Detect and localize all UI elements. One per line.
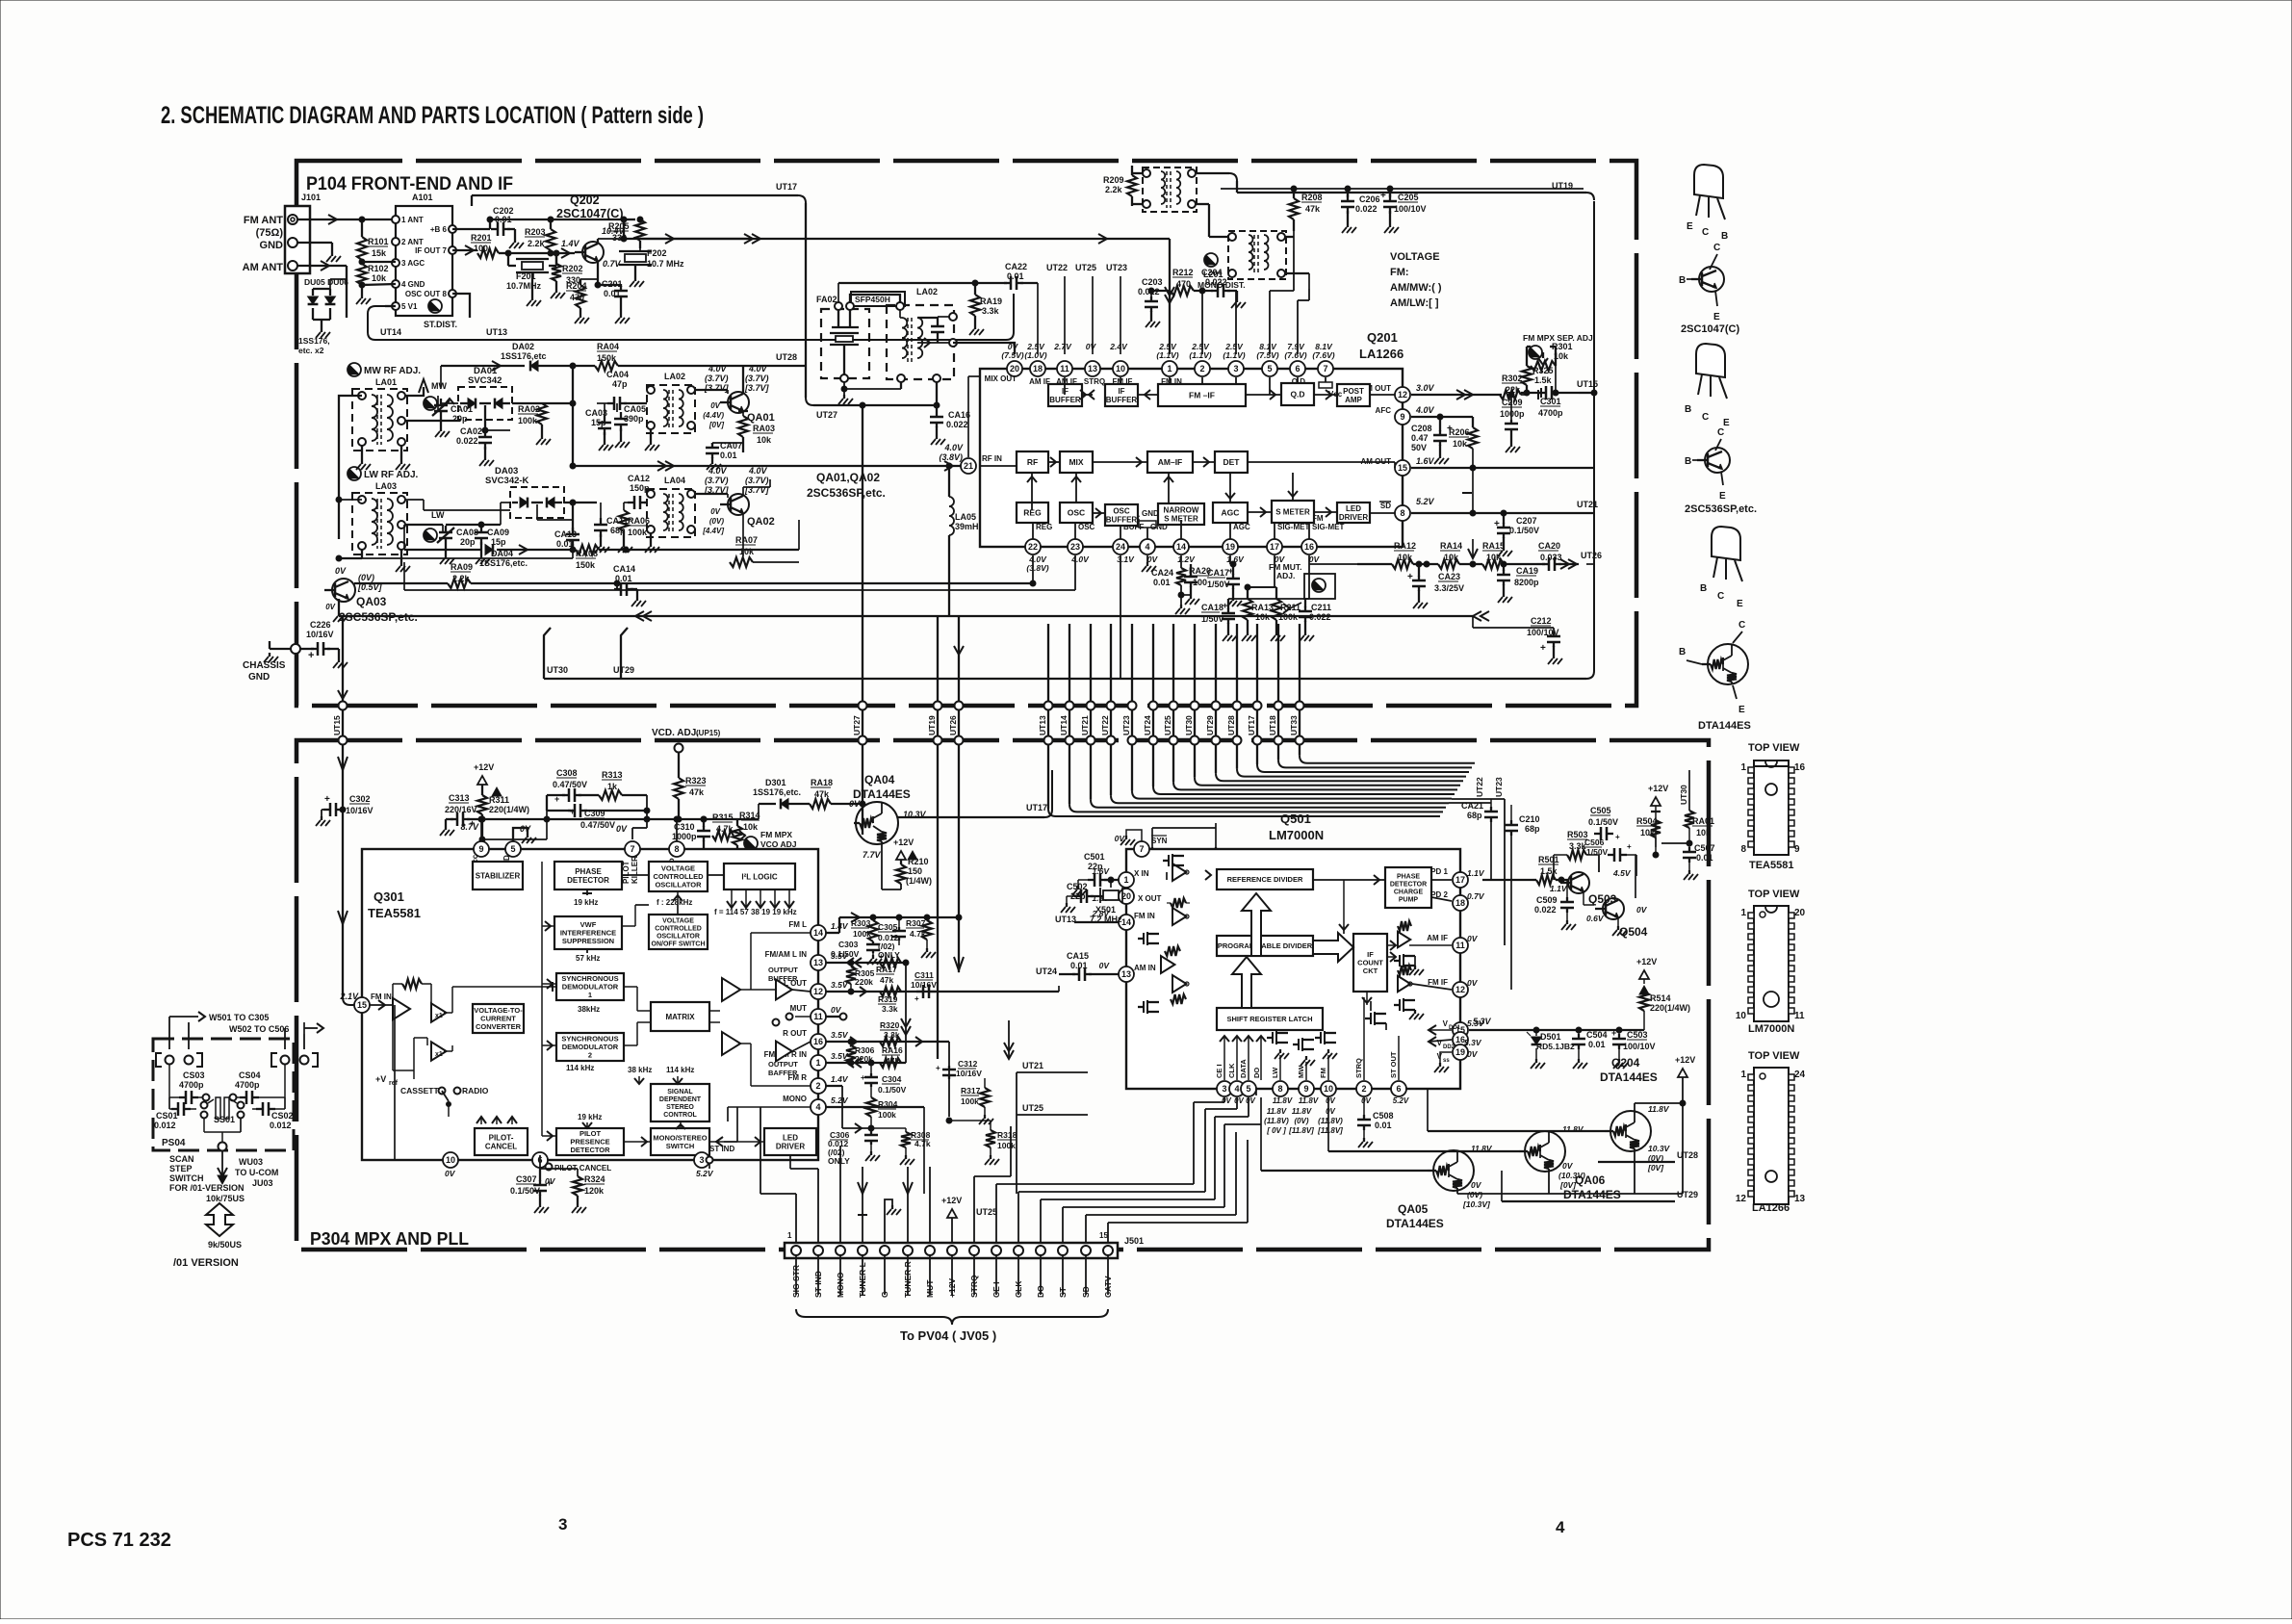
svg-text:24: 24 <box>1116 542 1125 552</box>
svg-text:3.3/25V: 3.3/25V <box>1434 583 1464 593</box>
wire top right rail <box>1221 188 1584 190</box>
wire PD1 row <box>1469 879 1532 881</box>
wire 5.2V arrow <box>1462 492 1472 494</box>
svg-text:RA07: RA07 <box>735 535 758 545</box>
wire LA01 left loop <box>339 396 362 539</box>
svg-text:C505: C505 <box>1590 806 1611 815</box>
Q201 internal vert FM <box>1201 377 1203 384</box>
J501 riser CATV <box>1107 1223 1109 1243</box>
svg-text:TUNER L: TUNER L <box>858 1262 867 1298</box>
svg-text:1: 1 <box>1167 364 1172 374</box>
svg-text:10/16V: 10/16V <box>346 806 373 815</box>
svg-text:8: 8 <box>1740 844 1746 855</box>
wire QA04 collector right <box>898 816 1044 818</box>
wire +B rail top <box>452 228 490 230</box>
svg-text:C208: C208 <box>1411 424 1432 433</box>
svg-text:UT18: UT18 <box>1268 715 1277 735</box>
svg-text:(3.8V): (3.8V) <box>939 452 963 462</box>
svg-text:STEP: STEP <box>169 1164 193 1173</box>
svg-text:F202: F202 <box>647 248 667 258</box>
Q301 pin 16 <box>811 1034 826 1049</box>
svg-text:C307: C307 <box>516 1174 537 1184</box>
block RF <box>1017 451 1048 473</box>
Q301 pin 5 <box>505 841 521 857</box>
svg-text:UT22: UT22 <box>1046 263 1068 272</box>
svg-text:ST OUT: ST OUT <box>1389 1051 1398 1078</box>
wire pin7 from R313 <box>646 819 648 828</box>
Q201 pin 2 <box>1195 361 1210 376</box>
svg-text:38 kHz: 38 kHz <box>628 1066 652 1074</box>
svg-text:VOLTAGE: VOLTAGE <box>1390 251 1440 263</box>
svg-text:10k: 10k <box>743 822 759 832</box>
block SYNC DEMOD 1 <box>556 973 624 1000</box>
svg-text:7: 7 <box>630 844 634 854</box>
svg-text:UT14: UT14 <box>1059 715 1069 735</box>
Q201 pin 6 <box>1290 361 1305 376</box>
Q301 pin 4 <box>811 1099 826 1115</box>
svg-text:22p: 22p <box>1088 862 1103 871</box>
wire pin24 drop <box>1120 555 1121 679</box>
svg-text:2SC1047(C): 2SC1047(C) <box>556 207 623 220</box>
svg-text:23: 23 <box>1070 542 1080 552</box>
J501 pin 6 TUNER R <box>903 1246 913 1255</box>
svg-text:1.5k: 1.5k <box>1540 866 1558 876</box>
svg-text:5.2V: 5.2V <box>1393 1096 1409 1105</box>
varactor DA03b <box>547 498 554 508</box>
Q301 pin 13 <box>811 955 826 970</box>
svg-text:C: C <box>1717 427 1724 438</box>
package 2SC536 TO92 <box>1696 344 1725 377</box>
svg-text:(0V): (0V) <box>1467 1190 1482 1199</box>
svg-text:1SS176,etc.: 1SS176,etc. <box>753 787 801 797</box>
svg-text:11.8V: 11.8V <box>1299 1096 1319 1105</box>
svg-text:MONO: MONO <box>836 1272 845 1298</box>
warning triangle R514 <box>1639 986 1649 994</box>
svg-text:SD: SD <box>1380 502 1391 510</box>
bus wire UT15 <box>342 616 344 997</box>
LA03 gnd leads <box>400 550 402 562</box>
resistor R102 10k <box>361 260 363 264</box>
block LED DRIVER <box>1337 503 1370 523</box>
svg-text:W501 TO C305: W501 TO C305 <box>209 1013 269 1022</box>
svg-text:3.1V: 3.1V <box>1117 554 1135 564</box>
A101 pin2 ANT <box>392 238 399 245</box>
bus wire UT18 <box>1277 624 1279 760</box>
svg-text:1.2V: 1.2V <box>1177 554 1196 564</box>
svg-text:CA24: CA24 <box>1151 568 1173 578</box>
wire F202 node to FM line <box>640 238 1170 240</box>
svg-text:100k: 100k <box>518 416 538 425</box>
svg-text:2: 2 <box>1361 1084 1366 1094</box>
svg-text:5: 5 <box>1246 1084 1250 1094</box>
svg-text:C206: C206 <box>1359 194 1380 204</box>
svg-text:100k: 100k <box>961 1096 979 1106</box>
svg-text:BUFFER: BUFFER <box>768 974 798 983</box>
wire Q202 collector to rail <box>597 239 599 244</box>
Q501 pin 18 PD2 <box>1453 895 1468 911</box>
Q301 wire vwf <box>622 925 635 927</box>
P504 switch contacts L <box>156 1053 162 1067</box>
svg-text:0V: 0V <box>616 824 628 834</box>
wire UT29 out <box>1502 1200 1675 1202</box>
wire FM/AM L IN row <box>826 962 906 964</box>
Q501 pin 3 <box>1217 1081 1232 1096</box>
svg-text:DTA144ES: DTA144ES <box>1698 720 1751 732</box>
svg-text:UT25: UT25 <box>1075 263 1096 272</box>
svg-text:0.7V: 0.7V <box>603 259 622 269</box>
Q501 big arrow up <box>1242 893 1271 956</box>
svg-text:KILLER: KILLER <box>631 856 639 884</box>
Q501 fets am <box>1143 933 1145 944</box>
svg-text:G: G <box>880 1291 889 1298</box>
LA01 gnd leads <box>361 446 363 460</box>
svg-text:8: 8 <box>1400 508 1404 518</box>
svg-text:LA01: LA01 <box>375 377 397 387</box>
wire R ladder to pin4 <box>362 284 396 285</box>
svg-text:UT17: UT17 <box>1247 715 1256 735</box>
svg-text:5.3V: 5.3V <box>1473 1017 1492 1026</box>
svg-text:4: 4 <box>1145 542 1149 552</box>
svg-text:11: 11 <box>1794 1011 1805 1021</box>
Q301 pin 12 <box>811 984 826 999</box>
svg-text:R323: R323 <box>685 776 707 786</box>
svg-text:Q504: Q504 <box>1619 925 1648 939</box>
svg-text:PROGRAMMABLE DIVIDER: PROGRAMMABLE DIVIDER <box>1218 941 1313 950</box>
wire RA09 line <box>354 582 448 584</box>
svg-text:CA05: CA05 <box>624 404 646 414</box>
svg-text:OSCILLATOR: OSCILLATOR <box>657 933 700 940</box>
svg-text:4.0V: 4.0V <box>1415 405 1435 415</box>
J501 pin 8 +12V <box>947 1246 957 1255</box>
block VCO <box>649 862 708 891</box>
svg-text:15: 15 <box>1398 463 1407 473</box>
x1 buffer 2 <box>431 1042 447 1061</box>
Q501 pin 10 <box>1321 1081 1336 1096</box>
svg-text:FM MPX: FM MPX <box>760 830 792 839</box>
svg-text:15: 15 <box>357 1000 367 1010</box>
svg-text:OSC: OSC <box>1068 507 1085 517</box>
Q301 pin 9 <box>474 841 489 857</box>
svg-text:Q301: Q301 <box>373 889 404 904</box>
svg-text:(1.0V): (1.0V) <box>1024 350 1046 360</box>
svg-text:R102: R102 <box>368 264 389 273</box>
svg-text:JU03: JU03 <box>252 1178 273 1188</box>
double arrow version <box>206 1203 233 1236</box>
transformer T201 dashed box <box>1143 168 1197 212</box>
svg-text:220(1/4W): 220(1/4W) <box>1650 1003 1690 1013</box>
svg-text:57 kHz: 57 kHz <box>576 954 600 963</box>
wire R ladder to pin3 <box>362 261 396 263</box>
svg-text:X501: X501 <box>1095 905 1116 915</box>
block VWF <box>554 916 622 949</box>
svg-text:IF OUT 7: IF OUT 7 <box>415 246 447 255</box>
svg-text:4: 4 <box>1556 1518 1565 1536</box>
svg-text:UT14: UT14 <box>380 327 401 337</box>
wire mut row <box>1248 586 1276 588</box>
P304 board dashed border <box>296 740 1709 1250</box>
svg-text:Q202: Q202 <box>570 193 600 207</box>
bus wire UT22 <box>1110 624 1112 795</box>
input amp triangle <box>393 998 410 1020</box>
svg-text:UT30: UT30 <box>547 665 568 675</box>
wire Q204 emitter up <box>1634 1151 1635 1194</box>
svg-text:Q501: Q501 <box>1280 812 1311 826</box>
transformer LA02if dashed box <box>647 385 695 433</box>
wire mid vertical node <box>572 366 574 403</box>
diode DU05 <box>312 289 314 296</box>
svg-text:0V: 0V <box>1099 961 1111 970</box>
transistor QA05 <box>1433 1150 1474 1191</box>
svg-text:LA1266: LA1266 <box>1752 1202 1790 1214</box>
svg-text:LA05: LA05 <box>955 512 976 522</box>
svg-text:W502 TO C506: W502 TO C506 <box>229 1024 289 1034</box>
svg-text:MUT: MUT <box>790 1004 807 1013</box>
Q201 bottom pin stubs <box>1032 523 1034 539</box>
svg-text:TEA5581: TEA5581 <box>368 906 421 920</box>
svg-text:C311: C311 <box>914 970 934 980</box>
svg-text:FM –IF: FM –IF <box>1189 390 1215 400</box>
bus wire UT24 <box>1152 624 1154 786</box>
svg-text:C312: C312 <box>958 1059 978 1069</box>
svg-text:10k/75US: 10k/75US <box>206 1194 245 1203</box>
svg-text:5.3V: 5.3V <box>1464 1038 1482 1047</box>
svg-text:C210: C210 <box>1519 814 1540 824</box>
svg-text:C205: C205 <box>1398 193 1419 202</box>
Q201 pin 22 <box>1025 539 1041 554</box>
svg-text:C211: C211 <box>1311 603 1331 612</box>
wire MW row through DA01 <box>441 402 458 404</box>
svg-text:DO: DO <box>1252 1068 1261 1078</box>
svg-text:OSC OUT 8: OSC OUT 8 <box>405 290 448 298</box>
svg-text:R205: R205 <box>608 221 630 231</box>
J501 brace <box>796 1309 1108 1325</box>
svg-text:DO: DO <box>1036 1285 1045 1298</box>
svg-text:AFC: AFC <box>1376 406 1392 415</box>
svg-text:LW: LW <box>1271 1067 1279 1078</box>
svg-text:0V: 0V <box>1467 978 1479 988</box>
svg-text:P304 MPX AND PLL: P304 MPX AND PLL <box>310 1229 469 1249</box>
svg-text:16: 16 <box>1304 542 1314 552</box>
bus wire UT26 <box>958 616 960 972</box>
svg-text:B: B <box>1700 583 1707 594</box>
wire MW row <box>405 420 460 422</box>
Q201 pin 18 <box>1030 361 1045 376</box>
P504 switch contacts R <box>271 1053 277 1067</box>
block NARROW S METER <box>1158 503 1204 525</box>
svg-text:MONO: MONO <box>783 1095 807 1103</box>
svg-text:C508: C508 <box>1373 1111 1394 1121</box>
wire AM out arrow line <box>1473 467 1484 469</box>
transformer LA01 <box>372 395 377 441</box>
Q501 pin 4 <box>1229 1081 1245 1096</box>
svg-text:AM IN: AM IN <box>1134 964 1156 972</box>
filter FA02 symbol <box>837 310 839 327</box>
svg-text:CATV: CATV <box>1103 1276 1113 1298</box>
svg-text:AGC: AGC <box>1222 507 1240 517</box>
svg-text:UT21: UT21 <box>1022 1061 1043 1070</box>
svg-text:QA03: QA03 <box>356 595 387 608</box>
svg-text:14: 14 <box>1176 542 1186 552</box>
svg-text:(11.8V): (11.8V) <box>1318 1117 1343 1125</box>
wire T201 right to L201 <box>1197 203 1209 205</box>
block OSC <box>1060 503 1093 523</box>
svg-text:0V: 0V <box>831 1005 842 1015</box>
block S METER <box>1272 501 1314 523</box>
bus gnd stubs <box>1152 827 1216 829</box>
wire UT14 UT13 loop <box>385 305 396 307</box>
svg-text:TOP VIEW: TOP VIEW <box>1748 889 1800 900</box>
svg-text:R203: R203 <box>525 227 546 237</box>
svg-text:0V: 0V <box>1467 934 1479 943</box>
wire FM OUT to R325 junction <box>1521 394 1527 396</box>
svg-text:CA04: CA04 <box>606 370 629 379</box>
svg-text:0V: 0V <box>710 507 720 516</box>
svg-text:LED: LED <box>1346 504 1361 513</box>
svg-text:0V: 0V <box>1361 1096 1371 1105</box>
svg-text:DRIVER: DRIVER <box>776 1142 805 1150</box>
diode DU06 <box>329 289 331 296</box>
wire pin5 stub up <box>1269 291 1271 354</box>
wire switch down <box>448 1104 450 1117</box>
svg-text:C503: C503 <box>1627 1030 1648 1040</box>
wire AM OUT <box>1411 467 1594 469</box>
Q301 wire demod to matrix <box>624 986 637 988</box>
A101 pin6 +B <box>449 225 456 233</box>
svg-text:2. SCHEMATIC DIAGRAM AND PART: 2. SCHEMATIC DIAGRAM AND PARTS LOCATION … <box>161 102 704 129</box>
J501 riser SIG STR <box>795 1221 797 1243</box>
varactor DA03a <box>520 498 528 508</box>
svg-text:100k: 100k <box>997 1141 1016 1150</box>
svg-text:(7.5V): (7.5V) <box>1001 350 1023 360</box>
Q501 pin 9 <box>1299 1081 1314 1096</box>
svg-text:UT23: UT23 <box>1106 263 1127 272</box>
svg-text:POST: POST <box>1343 387 1364 396</box>
svg-text:BUFFER: BUFFER <box>1106 396 1138 404</box>
svg-text:(0V): (0V) <box>709 517 724 526</box>
wire y421 <box>813 404 937 406</box>
svg-text:10: 10 <box>1116 364 1125 374</box>
wire pin15 arrow <box>343 997 354 1005</box>
svg-text:[11.8V]: [11.8V] <box>1288 1126 1314 1135</box>
block V-TO-I <box>473 1004 524 1033</box>
svg-text:15k: 15k <box>372 248 387 258</box>
svg-text:12: 12 <box>813 987 823 996</box>
wire PD2 row <box>1469 902 1486 904</box>
svg-text:STRQ: STRQ <box>1354 1058 1363 1078</box>
Q501 amp amif <box>1398 932 1410 948</box>
svg-text:FOR /01-VERSION: FOR /01-VERSION <box>169 1183 245 1193</box>
svg-text:CHARGE: CHARGE <box>1394 889 1424 895</box>
svg-text:E: E <box>1713 312 1720 322</box>
Q301 pin 6 <box>532 1152 548 1168</box>
svg-text:0.022: 0.022 <box>946 420 968 429</box>
wire MONO out <box>826 1106 924 1108</box>
svg-text:(3.7V): (3.7V) <box>745 476 769 485</box>
svg-text:1.5k: 1.5k <box>1534 375 1553 385</box>
SS01 common wire <box>203 1119 205 1132</box>
Q301 wire led to pin3 <box>789 1155 791 1169</box>
wire collector node <box>623 219 625 239</box>
J501 riser TUNER R <box>907 1198 909 1243</box>
svg-text:UT23: UT23 <box>1121 715 1131 735</box>
svg-text:RA03: RA03 <box>753 424 775 433</box>
svg-text:1.4V: 1.4V <box>561 239 580 248</box>
svg-text:8.7V: 8.7V <box>460 822 479 832</box>
wire LA02if out to QA01 <box>695 389 728 391</box>
filters dashed box <box>821 309 869 378</box>
svg-text:(UP15): (UP15) <box>696 729 721 737</box>
svg-text:0V: 0V <box>1234 1096 1244 1105</box>
Q301 pin 1 <box>811 1055 826 1070</box>
wire Q202 base <box>561 248 570 258</box>
Q301 output buffer R <box>776 1042 792 1062</box>
svg-text:x1: x1 <box>435 1013 443 1019</box>
svg-text:0.01: 0.01 <box>1153 578 1171 587</box>
svg-text:ST IND: ST IND <box>813 1271 823 1298</box>
wire FM OUT <box>1411 394 1502 396</box>
svg-text:4: 4 <box>1234 1084 1239 1094</box>
wire bus row2 <box>544 678 1586 680</box>
svg-text:20: 20 <box>1794 908 1806 918</box>
J501 pin 5 G <box>880 1246 889 1255</box>
wire pin22 drop <box>1032 555 1034 583</box>
svg-text:STRQ: STRQ <box>1084 377 1105 386</box>
svg-text:R201: R201 <box>471 233 492 243</box>
svg-text:68p: 68p <box>1467 811 1482 820</box>
svg-text:To PV04 ( JV05 ): To PV04 ( JV05 ) <box>900 1328 996 1343</box>
svg-text:8: 8 <box>674 844 679 854</box>
svg-text:PD 1: PD 1 <box>1430 867 1448 876</box>
svg-text:+: + <box>936 1064 940 1072</box>
svg-text:0.022: 0.022 <box>456 436 478 446</box>
svg-text:100k: 100k <box>878 1110 896 1120</box>
block FM-IF <box>1158 384 1246 406</box>
Q301 wire R out <box>740 1044 776 1051</box>
svg-text:B: B <box>1679 647 1686 657</box>
svg-text:f = 114 57 38 19 19 kHz: f = 114 57 38 19 19 kHz <box>714 908 797 916</box>
varactor DA01a <box>468 399 476 409</box>
wire QA01 collector up <box>742 366 744 394</box>
svg-text:C226: C226 <box>310 620 331 630</box>
svg-text:TOP VIEW: TOP VIEW <box>1748 1050 1800 1062</box>
svg-text:B: B <box>1679 275 1686 286</box>
Q201 pin 9 <box>1395 409 1410 425</box>
svg-text:UT28: UT28 <box>776 352 797 362</box>
wire LA02det out <box>917 342 949 344</box>
block VCO ON/OFF <box>649 915 708 949</box>
J501 pin 2 ST IND <box>813 1246 823 1255</box>
svg-text:0.7V: 0.7V <box>1467 891 1485 901</box>
bus wire UT25 <box>1172 624 1174 782</box>
J501 riser TUNER L <box>862 1198 863 1243</box>
svg-text:UT15: UT15 <box>332 715 342 735</box>
J501 pin 12 DO <box>1036 1246 1045 1255</box>
svg-text:3.0V: 3.0V <box>1416 383 1435 393</box>
svg-text:15: 15 <box>1099 1231 1108 1240</box>
svg-text:Q204: Q204 <box>1611 1056 1640 1070</box>
svg-text:B: B <box>1721 231 1728 242</box>
J501 riser DO <box>1040 1199 1042 1243</box>
transistor QA03 <box>332 579 355 602</box>
Q201 GND tab <box>1146 528 1148 539</box>
svg-text:1.6V: 1.6V <box>1416 456 1435 466</box>
wire QA03 emitter gnd <box>338 599 340 612</box>
svg-text:SHIFT REGISTER LATCH: SHIFT REGISTER LATCH <box>1226 1015 1312 1023</box>
svg-text:STEREO: STEREO <box>666 1104 694 1111</box>
svg-text:RA15: RA15 <box>1482 541 1505 551</box>
svg-text:CLK: CLK <box>1227 1063 1236 1078</box>
J101 AM terminal <box>288 261 297 271</box>
